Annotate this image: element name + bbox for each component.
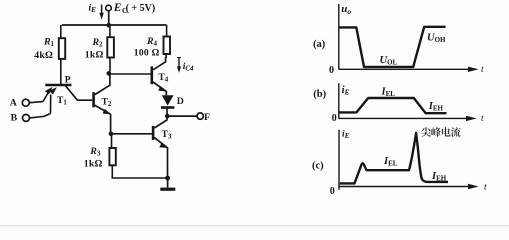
node junction under R2 xyxy=(107,71,112,76)
svg-text:iE: iE xyxy=(342,130,350,141)
svg-text:T4: T4 xyxy=(158,73,168,84)
svg-text:F: F xyxy=(204,112,210,123)
wire R2 node to T4 base xyxy=(109,73,151,75)
output terminal F xyxy=(197,113,203,119)
svg-text:1kΩ: 1kΩ xyxy=(85,50,104,61)
input terminal B xyxy=(23,114,51,122)
curve b xyxy=(340,98,447,113)
page edge faint line xyxy=(0,225,509,226)
axis y a xyxy=(338,4,340,70)
node T2 emitter junction xyxy=(109,132,114,137)
svg-text:t: t xyxy=(481,114,484,124)
transistor T4 xyxy=(152,57,167,95)
resistor R2 xyxy=(107,25,114,72)
axis y c xyxy=(338,130,340,190)
diode D xyxy=(161,95,174,114)
axis y b xyxy=(338,83,340,119)
label jianfeng dianliu (peak current) xyxy=(421,127,460,137)
svg-text:P: P xyxy=(65,75,71,85)
resistor R3 xyxy=(109,134,166,178)
svg-text:E: E xyxy=(113,2,122,14)
wire supply to rail xyxy=(108,11,110,25)
transistor T3 xyxy=(153,116,168,176)
ground xyxy=(160,178,175,191)
svg-text:0: 0 xyxy=(329,65,334,76)
resistor R4 xyxy=(164,25,171,58)
svg-text:iE: iE xyxy=(342,85,350,97)
wire to F xyxy=(167,115,197,117)
svg-text:(b): (b) xyxy=(313,89,326,100)
curve a xyxy=(339,27,446,67)
wire junction to T3 base xyxy=(111,133,152,135)
axis x b xyxy=(339,116,477,121)
svg-text:0: 0 xyxy=(330,186,335,197)
resistor R1 xyxy=(59,25,65,84)
wire T2 collector riser xyxy=(95,73,110,94)
transistor T2 xyxy=(94,92,111,132)
svg-text:B: B xyxy=(11,113,18,124)
svg-text:100 Ω: 100 Ω xyxy=(134,49,160,59)
node junction on rail xyxy=(107,23,112,28)
svg-text:( + 5V): ( + 5V) xyxy=(126,3,156,14)
svg-text:iE: iE xyxy=(89,4,97,15)
svg-text:(c): (c) xyxy=(312,160,324,171)
label EC(+5V) xyxy=(113,2,155,15)
svg-text:0: 0 xyxy=(332,113,337,124)
transistor T1 xyxy=(43,85,92,114)
axis x c xyxy=(339,184,479,189)
curve c xyxy=(340,133,448,184)
node ground junction xyxy=(165,176,170,181)
svg-text:D: D xyxy=(177,96,184,107)
axis x a xyxy=(339,67,479,72)
svg-text:T2: T2 xyxy=(102,97,112,108)
current arrow iC4 xyxy=(177,58,181,73)
svg-text:T1: T1 xyxy=(57,96,67,107)
svg-text:T3: T3 xyxy=(162,130,172,141)
svg-text:4kΩ: 4kΩ xyxy=(34,50,53,61)
svg-text:A: A xyxy=(10,97,17,108)
current arrow iE xyxy=(99,5,103,20)
wire top rail xyxy=(62,24,167,26)
svg-text:t: t xyxy=(481,65,484,75)
svg-text:(a): (a) xyxy=(313,39,326,50)
svg-text:t: t xyxy=(484,183,487,193)
svg-text:1kΩ: 1kΩ xyxy=(84,159,103,170)
supply terminal circle xyxy=(106,5,112,11)
input terminal A xyxy=(22,99,43,106)
node output junction xyxy=(165,114,170,119)
